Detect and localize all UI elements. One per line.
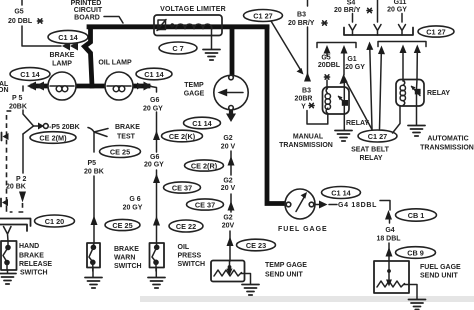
svg-text:VOLTAGE LIMITER: VOLTAGE LIMITER — [160, 6, 226, 13]
wire P5 down to brake warn switch — [93, 176, 95, 242]
svg-text:20BK: 20BK — [9, 104, 27, 111]
wire to ground (oil press) — [155, 268, 157, 278]
svg-text:BRAKE: BRAKE — [19, 253, 44, 260]
svg-text:C1 14: C1 14 — [192, 119, 212, 128]
dashed cluster boundary left — [7, 110, 14, 112]
label FUEL GAGE SEND UNIT — [420, 264, 461, 280]
wire G5 arrow to relay coil — [324, 45, 331, 56]
svg-text:20 BK: 20 BK — [84, 169, 104, 176]
connector C1 14 (oval, top) — [48, 30, 88, 43]
svg-text:Y: Y — [301, 104, 306, 111]
svg-text:20 GY: 20 GY — [144, 162, 164, 169]
svg-text:BRAKE: BRAKE — [50, 52, 75, 59]
wire contact bottom to ground — [416, 94, 418, 125]
connector CE 2(R) oval — [185, 160, 224, 171]
label G2 20 V (first) — [221, 135, 236, 151]
heavy drop to temp gage — [230, 29, 235, 75]
wire coil bottom to C1 27 low — [393, 106, 401, 133]
svg-text:PRESS: PRESS — [178, 253, 202, 260]
cut label AL / ON at left edge — [0, 81, 9, 94]
connector C 7 (oval) — [159, 42, 197, 54]
svg-text:C1 20: C1 20 — [45, 217, 64, 226]
svg-text:CE 37: CE 37 — [195, 201, 215, 210]
svg-text:CE 2(K): CE 2(K) — [169, 132, 196, 141]
wire limiter to ground — [211, 27, 213, 49]
scan shadow band bottom — [140, 296, 474, 302]
ground (fuel gage send unit) — [409, 300, 426, 310]
arrow P2 into cluster connector — [19, 192, 26, 203]
connector C1 14 oval (fuel gage) — [322, 187, 361, 199]
connector C1 27 oval (low) — [358, 130, 397, 142]
arrowheads into printed circuit board (left) — [62, 42, 78, 51]
svg-text:GAGE: GAGE — [184, 91, 205, 98]
svg-text:CE 25: CE 25 — [112, 221, 132, 230]
seat belt relay K1 box — [323, 87, 350, 114]
svg-text:20 GY: 20 GY — [123, 205, 143, 212]
wire B3 loop to relay coil — [307, 111, 328, 125]
svg-text:BOARD: BOARD — [74, 15, 100, 22]
label PRINTED CIRCUIT BOARD — [71, 0, 123, 23]
arrowheads cluster left (brake lamp feed) — [27, 82, 44, 91]
label OIL PRESS SWITCH — [178, 244, 206, 268]
svg-text:BRAKE: BRAKE — [115, 124, 140, 131]
arrowheads right of oil lamp (G6 feed) — [137, 82, 152, 91]
svg-text:PRINTED: PRINTED — [71, 0, 102, 7]
connector C1 27 oval (top) — [244, 10, 283, 22]
wire-end arrow at CE 25 — [91, 216, 98, 226]
svg-text:20 BK: 20 BK — [6, 184, 26, 191]
wire arrow to auto relay contact — [414, 45, 421, 89]
svg-text:C 7: C 7 — [172, 44, 183, 53]
svg-text:TEMP GAGE: TEMP GAGE — [265, 262, 307, 269]
svg-text:C1 14: C1 14 — [58, 33, 78, 42]
brake lamp L1 — [48, 72, 76, 100]
wire G2 down (2) — [230, 194, 232, 212]
svg-text:G2: G2 — [223, 178, 232, 185]
label G1 20 GY (top) — [387, 0, 407, 14]
svg-text:OIL: OIL — [178, 244, 190, 251]
svg-text:G2: G2 — [223, 135, 232, 142]
svg-text:TEMP: TEMP — [184, 82, 204, 89]
wire G1 arrow to relay contact — [341, 45, 348, 75]
relay K1 coil — [326, 88, 328, 114]
svg-text:B3: B3 — [302, 88, 311, 95]
ground (seat belt relay) — [335, 131, 352, 142]
label G2 20V (third) — [222, 215, 235, 230]
wire P5 from cluster down — [22, 86, 24, 91]
svg-text:ON: ON — [0, 87, 9, 94]
wire P2 down from splice — [22, 134, 24, 173]
svg-text:G5: G5 — [321, 55, 330, 62]
wire G5 stub top — [21, 0, 23, 5]
svg-text:C1 14: C1 14 — [20, 70, 40, 79]
junction dot in limiter — [170, 23, 174, 27]
wire G1 from top edge with fork — [374, 0, 381, 35]
svg-text:20 BR/Y: 20 BR/Y — [334, 7, 361, 14]
svg-text:20 GY: 20 GY — [387, 7, 407, 14]
svg-text:C1 14: C1 14 — [144, 70, 164, 79]
svg-text:G 6: G 6 — [129, 196, 140, 203]
label MANUAL TRANSMISSION — [279, 134, 333, 150]
label G4 18 DBL — [376, 227, 401, 243]
wire contact bottom to ground — [343, 106, 345, 130]
wire-end arrow at CE 2(R) — [228, 156, 235, 166]
svg-text:SEAT BELT: SEAT BELT — [351, 147, 390, 154]
connector CE 22 oval — [169, 220, 203, 232]
label S4 20 BR/Y — [334, 0, 372, 14]
wire-end arrow at CE 37 (G2) — [228, 201, 235, 211]
label G6 20 GY — [143, 97, 163, 113]
svg-text:FUEL GAGE: FUEL GAGE — [420, 264, 461, 271]
label G1 20 GY (bracket) — [345, 56, 365, 71]
voltage limiter U1 box — [154, 15, 222, 36]
ground (temp gage send unit) — [242, 285, 259, 296]
svg-text:CB 9: CB 9 — [407, 249, 424, 258]
wire G2 down — [230, 151, 232, 175]
heavy drop to fuel gage — [267, 27, 286, 204]
heavy arrow below temp gage — [226, 110, 236, 122]
label G5 20 DBL — [8, 9, 43, 26]
wire G5 star to coil top — [326, 80, 328, 89]
connector CE 2(K) oval — [162, 130, 203, 142]
connector CB 1 oval — [396, 209, 437, 221]
splice star on G5 wire — [324, 75, 329, 79]
svg-text:CIRCUIT: CIRCUIT — [74, 7, 103, 14]
wire fuel send to ground — [405, 285, 418, 300]
svg-text:HAND: HAND — [19, 243, 39, 250]
svg-text:CE 25: CE 25 — [110, 148, 130, 157]
svg-text:20 GY: 20 GY — [345, 64, 365, 71]
wire S4 fork on bar — [349, 14, 356, 36]
wire to ground (hand brake) — [7, 270, 9, 273]
connector CE 25 oval (brake warn) — [105, 219, 140, 230]
wire G6 down to oil press switch — [156, 170, 158, 242]
label P5 20 BK (brake warn wire) — [84, 160, 104, 176]
ground (automatic relay) — [408, 126, 425, 137]
svg-text:G4: G4 — [385, 227, 394, 234]
heavy bus wire across voltage limiter — [89, 24, 267, 29]
svg-text:SEND UNIT: SEND UNIT — [420, 273, 458, 280]
fuel gage M2 — [285, 189, 315, 219]
svg-text:RELAY: RELAY — [427, 90, 450, 97]
wire-end arrow B3 junction — [304, 72, 311, 82]
connector C1 27 oval (right) — [418, 26, 454, 37]
svg-text:TRANSMISSION: TRANSMISSION — [279, 142, 333, 149]
ground (brake warn switch) — [85, 278, 102, 289]
heavy lamp bus — [33, 84, 148, 89]
relay K2 coil — [403, 80, 405, 106]
label TEMP GAGE — [184, 82, 205, 98]
connector C1 14 oval (brake lamp) — [10, 68, 50, 81]
temp gage M1 — [214, 75, 248, 110]
svg-text:20 GY: 20 GY — [143, 106, 163, 113]
label B3 20BR Y (second) — [295, 88, 315, 111]
connector bracket (seat belt relay) — [317, 43, 356, 48]
svg-text:FUEL GAGE: FUEL GAGE — [278, 226, 328, 233]
wire G4 to fuel send unit — [388, 243, 390, 261]
svg-text:CE 2(M): CE 2(M) — [39, 134, 67, 143]
label G6 20 GY (second) — [144, 154, 164, 169]
svg-text:WARN: WARN — [114, 255, 135, 262]
svg-text:B3: B3 — [297, 12, 306, 19]
wire-end arrow at CE 2(K) — [153, 131, 160, 141]
heavy feed wire: bus elbow down to lamp bus — [85, 27, 93, 86]
heater resistor coil in limiter — [176, 24, 212, 29]
svg-text:20 V: 20 V — [221, 185, 236, 192]
label BRAKE TEST — [115, 124, 140, 141]
connector CE 2(M) oval — [30, 132, 76, 144]
ground (voltage limiter) — [203, 50, 220, 61]
svg-text:C1 27: C1 27 — [368, 132, 387, 141]
fuel gage send unit R2 — [374, 261, 409, 293]
svg-text:G1: G1 — [347, 56, 356, 63]
label HAND BRAKE RELEASE SWITCH — [19, 243, 52, 277]
label G5 20DBL — [318, 55, 341, 70]
svg-text:P 2: P 2 — [16, 176, 26, 183]
wire Y merge into hand brake switch — [4, 227, 12, 242]
svg-text:G4 18DBL: G4 18DBL — [338, 202, 377, 209]
wire B3 stub top — [307, 0, 309, 6]
connector CE 23 oval — [237, 239, 276, 251]
svg-text:20BR: 20BR — [295, 96, 313, 103]
wire G6 from oil lamp corner — [151, 87, 157, 93]
svg-text:G11: G11 — [394, 0, 407, 6]
wire G5 vertical+horizontal to cluster — [22, 26, 61, 46]
wire G4 elbow down — [380, 201, 390, 211]
connector C1 27 bar (top right) — [344, 28, 413, 36]
oil press switch S3 — [150, 243, 165, 271]
svg-text:RELEASE: RELEASE — [19, 261, 52, 268]
label G2 20 V (second) — [221, 178, 236, 193]
connector CE 37 oval (G6) — [164, 182, 201, 193]
svg-text:MANUAL: MANUAL — [293, 134, 324, 141]
label B3 20 BR/Y — [288, 12, 327, 28]
wire contact to leader junction — [343, 82, 345, 100]
wire 20GY fork on bar — [399, 14, 406, 36]
wire-end arrow at CB 1 — [385, 210, 392, 220]
svg-text:20 V: 20 V — [221, 144, 236, 151]
svg-text:20 BR/Y: 20 BR/Y — [288, 20, 315, 27]
svg-text:TRANSMISSION: TRANSMISSION — [420, 145, 474, 152]
svg-text:SWITCH: SWITCH — [178, 261, 206, 268]
wire brake test fork — [88, 128, 108, 153]
svg-text:P5: P5 — [88, 160, 97, 167]
svg-text:P 5: P 5 — [12, 95, 22, 102]
label BRAKE LAMP — [50, 52, 75, 68]
voltage limiter contact symbol — [157, 20, 166, 32]
connector CE 25 oval (brake test) — [100, 146, 141, 158]
svg-text:-P5 20BK: -P5 20BK — [49, 124, 80, 131]
automatic relay K2 box — [396, 80, 424, 107]
wire B3 down — [307, 27, 309, 76]
wire temp send to ground — [242, 274, 251, 285]
temp gage send unit R1 — [211, 261, 245, 282]
wire-end arrow at CE 23 — [227, 237, 234, 247]
relay K2 contact box — [411, 86, 421, 96]
connector CE 37 oval (G2) — [187, 199, 224, 210]
svg-text:CB 1: CB 1 — [408, 211, 425, 220]
svg-text:SEND UNIT: SEND UNIT — [265, 272, 303, 279]
ground (hand brake release switch) — [0, 274, 16, 285]
connector C1 20 oval — [35, 215, 75, 227]
leader line bracket-arrow to C1 27 low — [378, 46, 385, 130]
label SEAT BELT RELAY — [351, 147, 390, 163]
svg-text:18 DBL: 18 DBL — [376, 236, 401, 243]
label TEMP GAGE SEND UNIT — [265, 262, 307, 279]
connector C1 14 oval (oil lamp) — [136, 68, 172, 80]
svg-text:RELAY: RELAY — [346, 120, 369, 127]
leader from relay arrow to C1 27 low — [346, 82, 372, 130]
svg-text:G2: G2 — [223, 215, 232, 222]
wire-end arrow at CE 22 — [153, 216, 160, 226]
connector CB 9 oval — [396, 247, 436, 259]
svg-text:AUTOMATIC: AUTOMATIC — [427, 136, 468, 143]
svg-text:SWITCH: SWITCH — [114, 263, 142, 270]
svg-text:BRAKE: BRAKE — [114, 246, 139, 253]
wire G4 stub — [389, 218, 391, 223]
svg-text:SWITCH: SWITCH — [20, 270, 48, 277]
wire-end arrow at CB 9 — [386, 247, 393, 257]
label G 6 20 GY (third) — [123, 196, 143, 212]
svg-text:G5: G5 — [14, 9, 23, 16]
label P 2 20 BK — [6, 176, 26, 191]
wire G6 down — [156, 112, 158, 152]
big arrowhead at relay (leader target) — [340, 74, 348, 84]
connector bracket (automatic relay) — [378, 42, 426, 47]
hand brake release switch S1 — [1, 241, 17, 270]
svg-text:CE 2(R): CE 2(R) — [191, 162, 218, 171]
svg-text:CE 37: CE 37 — [172, 184, 192, 193]
svg-text:RELAY: RELAY — [359, 155, 382, 162]
wire fuel gage to G4 with arrow — [314, 201, 337, 209]
wire arrow to auto relay coil — [400, 45, 407, 82]
leader line bar to C1 27 low — [366, 42, 373, 130]
svg-text:20V: 20V — [222, 223, 235, 230]
wire P5 continues to splice fork — [23, 110, 34, 134]
svg-text:C1 27: C1 27 — [426, 28, 445, 37]
label AUTOMATIC TRANSMISSION — [420, 136, 474, 152]
svg-text:CE 22: CE 22 — [176, 222, 196, 231]
svg-text:C1 27: C1 27 — [253, 12, 272, 21]
connector C1 14 oval (temp gage) — [184, 117, 221, 129]
svg-text:G6: G6 — [150, 97, 159, 104]
oil lamp L2 — [105, 72, 133, 100]
wire-end arrow at CE 37 — [153, 174, 160, 184]
label P 5 20BK — [9, 95, 27, 111]
leader from C1 27 to B3 junction — [271, 21, 304, 75]
splice arrow to P5 label — [34, 123, 49, 130]
boundary connector mark upper — [2, 133, 9, 141]
svg-text:20 DBL: 20 DBL — [8, 18, 33, 25]
svg-text:S4: S4 — [347, 0, 356, 7]
svg-text:LAMP: LAMP — [52, 61, 72, 68]
svg-text:G6: G6 — [150, 154, 159, 161]
boundary connector mark lower — [1, 199, 8, 207]
wire to ground (brake warn) — [92, 268, 94, 278]
connector C1 20 bar — [0, 219, 31, 232]
label BRAKE WARN SWITCH — [114, 246, 142, 270]
svg-text:20DBL: 20DBL — [318, 62, 341, 69]
svg-text:CE 23: CE 23 — [246, 241, 266, 250]
brake warn switch S2 — [87, 243, 100, 271]
ground (oil press switch) — [148, 278, 165, 289]
svg-text:OIL LAMP: OIL LAMP — [98, 60, 132, 67]
wire G2 down to temp send unit — [229, 231, 231, 261]
relay K1 contact box — [338, 96, 348, 106]
svg-text:TEST: TEST — [117, 134, 136, 141]
svg-text:C1 14: C1 14 — [331, 189, 351, 198]
